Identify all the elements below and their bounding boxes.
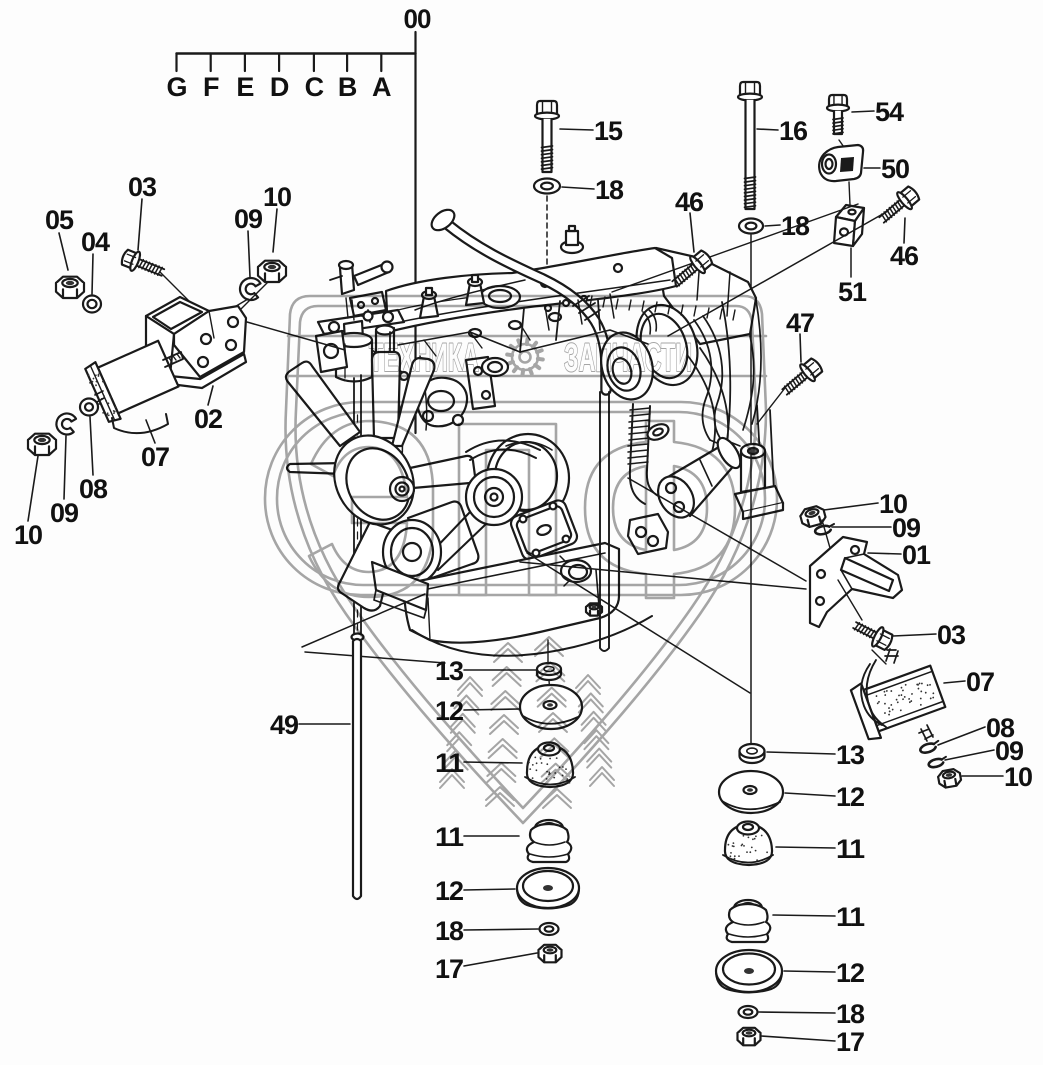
washer 08 left: [80, 399, 98, 416]
engine front foot: [372, 562, 428, 610]
svg-text:C: C: [305, 72, 324, 102]
bolt 03 left: [119, 247, 167, 282]
leader 47: [800, 334, 801, 362]
engine cover bolts: [426, 298, 434, 306]
bolt 46 left: [668, 248, 715, 293]
leader 51: [850, 248, 852, 277]
svg-text:05: 05: [45, 205, 74, 235]
svg-text:13: 13: [435, 656, 464, 686]
cup 12 center: [517, 868, 579, 908]
leader 03l: [138, 199, 142, 250]
svg-text:18: 18: [836, 999, 865, 1029]
engine hose inlet: [428, 206, 458, 235]
washer 18 (under 15): [534, 179, 560, 194]
svg-text:F: F: [203, 72, 219, 102]
svg-text:11: 11: [836, 834, 865, 864]
svg-text:09: 09: [234, 204, 263, 234]
engine exhaust flange: [627, 297, 708, 393]
svg-text:A: A: [372, 72, 391, 102]
engine pump detail: [350, 292, 386, 316]
engine fan hub: [390, 477, 414, 501]
engine manifold pipes: [694, 316, 722, 440]
svg-text:03: 03: [937, 620, 966, 650]
svg-text:07: 07: [966, 667, 994, 697]
engine foot plate: [735, 486, 783, 512]
svg-text:03: 03: [128, 172, 157, 202]
washer 18 (under 16): [739, 219, 763, 234]
svg-text:18: 18: [595, 175, 624, 205]
engine belt top: [466, 440, 540, 460]
axis line 16 upper: [750, 235, 752, 452]
engine injector 2: [466, 283, 484, 305]
leader 09l: [64, 436, 66, 499]
washer 18 right: [739, 1006, 758, 1018]
watermark oval ring: [265, 402, 777, 595]
svg-text:51: 51: [838, 277, 867, 307]
leader 12r: [785, 793, 835, 796]
leader 10r: [824, 503, 878, 510]
leader 46l: [690, 213, 694, 252]
engine bell housing: [688, 302, 730, 486]
mount 11b right: [734, 900, 762, 916]
clip 09 right: [814, 524, 835, 536]
engine timing lines: [392, 356, 427, 458]
svg-text:ЗАПЧАСТИ: ЗАПЧАСТИ: [564, 336, 692, 380]
engine lower tube: [600, 392, 609, 651]
engine fan blade right: [410, 456, 475, 488]
leader 02: [208, 386, 213, 405]
leader 04: [92, 254, 93, 294]
engine fan blade down: [338, 522, 398, 611]
svg-text:09: 09: [892, 513, 921, 543]
leader 54: [852, 111, 874, 112]
watermark gear: [512, 344, 538, 370]
leader 03r: [893, 634, 936, 636]
engine exhaust ribs: [643, 310, 656, 334]
svg-text:G: G: [166, 72, 186, 102]
svg-text:10: 10: [263, 182, 291, 212]
bracket 51: [836, 205, 864, 221]
leader gasket-column: [527, 553, 750, 693]
axis 09a: [216, 299, 248, 318]
leader 13c: [464, 669, 536, 671]
leader 09a: [248, 231, 250, 277]
leader 18: [562, 187, 594, 189]
leader 10s: [962, 775, 1003, 777]
svg-text:15: 15: [594, 116, 623, 146]
mount 11b center: [535, 820, 563, 836]
axis 50-51: [849, 182, 850, 205]
wedge to bracket 01: [628, 478, 806, 581]
rod 49: [353, 639, 361, 899]
axis 47: [757, 388, 785, 424]
svg-text:00: 00: [404, 4, 431, 34]
engine drain plug: [561, 560, 591, 582]
leader 11r: [776, 847, 835, 848]
leader 05: [59, 233, 68, 270]
nut 17 right: [738, 1028, 761, 1046]
leader 16: [757, 129, 778, 130]
engine cylinder head rear: [656, 248, 756, 344]
engine mount block: [628, 514, 668, 554]
engine fan blade left: [287, 463, 346, 474]
engine fan blade downright: [408, 502, 478, 579]
leader 18c: [464, 929, 538, 930]
watermark letter E: [309, 421, 433, 597]
disc 12 right: [719, 771, 783, 813]
engine rear edge: [743, 300, 761, 430]
leader 10l: [28, 456, 38, 521]
engine fuel filter: [344, 321, 363, 342]
svg-text:17: 17: [435, 954, 463, 984]
svg-text:10: 10: [14, 520, 42, 550]
leader 49: [299, 723, 350, 725]
leader 11d: [464, 835, 519, 837]
bolt 15: [537, 101, 557, 116]
engine pan skirt: [412, 616, 652, 656]
clip 08 right: [919, 741, 940, 755]
svg-text:07: 07: [141, 442, 169, 472]
leader 11s: [773, 915, 835, 916]
engine leak-off pipe: [415, 280, 525, 310]
engine front port: [482, 358, 508, 376]
leader 08r: [938, 727, 985, 745]
engine pump cylinder: [376, 328, 394, 380]
leader 12s: [784, 971, 835, 972]
engine side cover plate: [509, 498, 580, 562]
svg-text:08: 08: [79, 474, 108, 504]
leader 12c: [464, 709, 519, 710]
c-washer 09: [238, 276, 261, 301]
engine lifting strap: [466, 357, 495, 409]
leader 10a: [273, 209, 277, 252]
engine hose clamp: [573, 296, 600, 320]
engine fan blade upleft: [286, 362, 360, 446]
nut 10a: [258, 261, 286, 282]
engine filter fitting: [362, 310, 374, 322]
axis line pan-13: [547, 640, 549, 662]
engine pan nut: [586, 603, 602, 615]
svg-text:12: 12: [435, 876, 463, 906]
svg-text:49: 49: [270, 710, 299, 740]
svg-text:ТЕХНИКА: ТЕХНИКА: [369, 336, 479, 380]
engine crank pulley: [383, 520, 441, 584]
axis 01-03: [838, 580, 862, 620]
svg-text:D: D: [270, 72, 289, 102]
watermark shield: [286, 296, 767, 823]
engine exhaust outlet: [594, 326, 661, 405]
engine breather hose: [447, 224, 606, 390]
leader 09r: [832, 526, 891, 528]
leader 12d: [464, 889, 515, 890]
engine rear boss: [741, 451, 765, 492]
leader 17r: [761, 1036, 835, 1041]
watermark wheat: [458, 677, 482, 690]
svg-text:17: 17: [836, 1027, 864, 1057]
leader 07l: [146, 420, 155, 443]
bolt 16: [740, 82, 760, 97]
engine valve cover: [386, 248, 676, 332]
leader 11c: [464, 762, 522, 763]
engine fan blade upright: [392, 358, 434, 446]
nut 10 right: [799, 505, 827, 529]
axis 13-12: [549, 680, 550, 696]
engine stop lever: [340, 264, 354, 294]
svg-text:10: 10: [1004, 762, 1032, 792]
engine oil pan: [404, 543, 619, 643]
svg-text:11: 11: [836, 902, 865, 932]
svg-text:16: 16: [779, 116, 808, 146]
engine fuel pipes: [372, 350, 416, 390]
svg-text:B: B: [338, 72, 357, 102]
engine fuel filter head: [318, 310, 404, 334]
mount line 46-51-engine: [668, 211, 888, 336]
engine injection pump: [316, 331, 347, 372]
engine starter: [668, 444, 737, 516]
svg-text:12: 12: [836, 782, 864, 812]
engine injector 1: [420, 296, 438, 318]
axis line 16 lower: [750, 455, 752, 744]
engine manifold runners: [545, 294, 614, 330]
axis 03-07: [872, 650, 886, 664]
watermark letter F: [585, 421, 735, 598]
mount 07 left: [84, 335, 180, 423]
bolt 47: [778, 356, 825, 401]
svg-text:13: 13: [836, 740, 865, 770]
svg-text:E: E: [236, 72, 253, 102]
engine water pump body: [487, 434, 569, 522]
mount 07 right: [885, 649, 898, 663]
svg-text:50: 50: [881, 154, 909, 184]
engine downpipe: [630, 404, 650, 470]
washer 13 right: [740, 751, 765, 763]
leader 15: [560, 129, 593, 130]
svg-text:02: 02: [194, 404, 222, 434]
svg-text:46: 46: [890, 241, 919, 271]
leader 18r: [759, 1012, 835, 1013]
svg-text:04: 04: [81, 227, 110, 257]
washer 18 center: [540, 923, 559, 935]
engine fan shroud: [319, 422, 428, 538]
washer 04: [83, 296, 101, 313]
leader 13r: [767, 752, 835, 754]
bracket 02: [146, 297, 209, 334]
watermark letter P: [459, 424, 556, 595]
c-washer 09 left: [55, 412, 77, 436]
engine block lines: [390, 300, 600, 362]
engine fan blade up: [372, 352, 400, 438]
disc 12 center: [520, 685, 582, 729]
axis 03l: [160, 272, 196, 308]
clamp 50: [819, 145, 863, 181]
leader 46r: [904, 218, 905, 243]
nut 10s right: [937, 768, 962, 788]
leader 09s: [945, 750, 994, 760]
engine belt lower: [428, 512, 486, 570]
watermark band: [288, 336, 766, 376]
washer 13 center: [537, 669, 561, 680]
leader 08l: [90, 417, 93, 475]
axis 54-50: [839, 140, 846, 150]
mount line 02-engine: [247, 322, 345, 350]
mount line 46-cover: [612, 204, 858, 292]
dome 11 right: [725, 824, 772, 865]
engine head hatch: [590, 296, 592, 306]
cup 12 right: [716, 950, 782, 992]
bolt 46 right: [875, 184, 922, 229]
leader 17c: [464, 953, 537, 966]
engine head dots: [545, 305, 551, 311]
engine rear stud: [561, 241, 583, 253]
nut 05: [56, 277, 84, 298]
svg-text:54: 54: [875, 97, 904, 127]
engine oil filler cap: [480, 286, 520, 308]
ruler bracket G-A: [177, 52, 416, 54]
leader 01: [868, 553, 901, 554]
bracket 01: [810, 537, 902, 627]
engine rear plate: [757, 405, 774, 492]
leader 50: [864, 167, 880, 169]
svg-text:12: 12: [836, 958, 864, 988]
engine pump pulley: [466, 469, 522, 525]
leader 07r: [944, 681, 965, 683]
nut 10 left: [28, 434, 56, 455]
axis line 15/18: [546, 196, 548, 268]
leader 18b: [765, 225, 780, 226]
clip 09s right: [928, 757, 948, 769]
dome 11 center: [527, 745, 573, 787]
svg-text:11: 11: [435, 822, 464, 852]
engine water elbow: [418, 378, 467, 427]
engine exhaust gasket: [645, 421, 671, 443]
svg-text:01: 01: [902, 540, 931, 570]
bolt 54: [829, 95, 847, 108]
axis 10a: [240, 282, 268, 310]
axis 10-01: [822, 520, 838, 576]
index line 00: [414, 32, 416, 433]
engine dipstick tube: [354, 375, 361, 636]
svg-text:18: 18: [435, 916, 464, 946]
svg-text:09: 09: [50, 498, 79, 528]
bolt 03 right: [850, 616, 895, 653]
nut 17 center: [539, 945, 562, 963]
